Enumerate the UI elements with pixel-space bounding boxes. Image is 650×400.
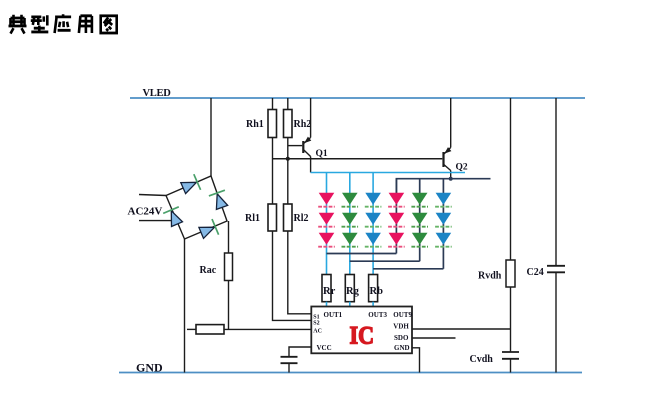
wire Cvdh to GND rail: [510, 359, 512, 373]
diode D2 (bridge top-right): [209, 190, 228, 209]
svg-text:OUT3: OUT3: [368, 311, 387, 319]
wire VLED to Rvdh: [510, 98, 512, 260]
resistor Rl1: [245, 204, 277, 231]
svg-text:Cvdh: Cvdh: [470, 354, 494, 365]
wire LED column 5 (navy): [419, 179, 421, 262]
svg-text:Rh1: Rh1: [246, 119, 264, 130]
resistor Rh2: [284, 110, 312, 138]
LED blue col3 row2: [365, 213, 382, 227]
wire base bus to Q2: [273, 158, 443, 160]
svg-text:IC: IC: [350, 323, 375, 350]
resistor Rg: [345, 275, 359, 302]
wire Rg to OUT (cyan stub): [349, 302, 351, 307]
transistor Q1: [303, 98, 328, 173]
resistor Rac: [200, 253, 233, 281]
wire AC line to IC: [187, 328, 311, 330]
wire LED column 6 (navy): [442, 179, 444, 269]
wire bridge bottom to GND: [184, 239, 186, 373]
svg-text:GND: GND: [394, 344, 410, 352]
navy LED feed bus: [396, 179, 490, 193]
svg-text:Q2: Q2: [456, 163, 468, 173]
svg-text:Rg: Rg: [346, 286, 360, 297]
wire Rvdh to Cvdh: [510, 287, 512, 352]
diode D1 (bridge top-left): [181, 174, 201, 193]
wire column5 to column2 join: [350, 260, 420, 262]
LED red col1 row2: [318, 213, 335, 227]
svg-text:VLED: VLED: [143, 88, 172, 99]
resistor Rr: [322, 275, 336, 302]
op IC U1 box: [311, 307, 412, 354]
wire Rr to OUT1 (cyan stub): [326, 302, 328, 307]
wire VCC to capacitor: [289, 347, 311, 357]
svg-text:AC: AC: [313, 328, 322, 334]
wire LED column 3 (cyan): [372, 173, 374, 275]
LED green col5 row1: [411, 193, 428, 207]
LED green col2 row2: [342, 213, 359, 227]
svg-text:Rb: Rb: [370, 286, 384, 297]
LED red col1 row3: [318, 233, 335, 247]
wire LED column 4 (navy): [395, 179, 397, 254]
LED blue col6 row3: [435, 233, 452, 247]
wire GND pin to rail: [412, 348, 420, 373]
wire SDO pin: [412, 337, 456, 339]
svg-text:C24: C24: [527, 267, 544, 278]
wire Rl1 to S2 pin: [273, 231, 312, 320]
wire Rh2 column: [287, 98, 289, 204]
cyan LED feed bus: [311, 172, 465, 174]
LED red col1 row1: [318, 193, 335, 207]
svg-text:Rac: Rac: [200, 265, 217, 276]
transistor Q2: [444, 98, 468, 179]
wire bridge top to VLED: [210, 98, 212, 176]
svg-text:Rh2: Rh2: [294, 119, 312, 130]
VLED rail: [130, 88, 585, 99]
capacitor C24: [527, 266, 566, 278]
svg-text:VDH: VDH: [393, 322, 409, 330]
LED green col5 row2: [411, 213, 428, 227]
wire LED column 1 (cyan): [326, 173, 328, 275]
title 典型应用图 (drawn strokes): [9, 14, 117, 33]
diode D4 (bridge left): [163, 207, 182, 227]
AC24V input wires: [139, 195, 172, 221]
wire C24 to GND rail: [555, 272, 557, 372]
LED green col2 row3: [342, 233, 359, 247]
junction dot base bus: [286, 157, 290, 161]
resistor Rh1: [246, 110, 277, 138]
LED blue col3 row3: [365, 233, 382, 247]
resistor Rvdh: [478, 260, 515, 287]
capacitor Cvdh: [470, 352, 520, 365]
LED blue col6 row2: [435, 213, 452, 227]
svg-text:Rvdh: Rvdh: [478, 271, 502, 282]
wire VDH pin: [412, 328, 511, 330]
svg-text:OUT1: OUT1: [324, 311, 343, 319]
capacitor (VCC bypass): [281, 357, 298, 363]
LED red col4 row1: [388, 193, 405, 207]
LED green col2 row1: [342, 193, 359, 207]
wire Rl2 to S1 pin: [288, 231, 312, 314]
wire Rac bottom to AC line: [228, 281, 230, 330]
wire capacitor to GND rail: [288, 363, 290, 372]
resistor Rb: [369, 275, 383, 302]
LED red col4 row3: [388, 233, 405, 247]
LED red col4 row2: [388, 213, 405, 227]
svg-text:S2: S2: [313, 320, 319, 326]
wire Rh1 column: [272, 98, 274, 204]
LED blue col3 row1: [365, 193, 382, 207]
wire VLED to C24: [555, 98, 557, 266]
svg-text:AC24V: AC24V: [128, 206, 163, 218]
wire column4 to column1 join: [327, 253, 397, 255]
LED green col5 row3: [411, 233, 428, 247]
svg-text:VCC: VCC: [317, 344, 332, 352]
svg-text:Rl2: Rl2: [294, 213, 309, 224]
bridge frame wires: [166, 176, 227, 239]
svg-text:Q1: Q1: [316, 149, 328, 159]
wire LED column 2 (cyan): [349, 173, 351, 275]
svg-text:OUT9: OUT9: [393, 311, 412, 319]
resistor (AC line, horizontal): [196, 325, 224, 334]
junction dot Q2 collector: [449, 177, 453, 181]
svg-text:Rr: Rr: [323, 286, 336, 297]
wire Rb to OUT3 (cyan stub): [372, 302, 374, 307]
wire bridge right vertex to Rac: [228, 221, 230, 253]
svg-text:Rl1: Rl1: [245, 213, 260, 224]
GND rail: [119, 361, 582, 375]
diode D3 (bridge bottom-right): [199, 219, 219, 238]
svg-text:GND: GND: [136, 361, 163, 375]
svg-text:SDO: SDO: [394, 334, 409, 342]
wire column6 to column3 join: [373, 268, 443, 270]
LED blue col6 row1: [435, 193, 452, 207]
resistor Rl2: [284, 204, 309, 231]
wire Q1 base lead: [288, 145, 302, 147]
